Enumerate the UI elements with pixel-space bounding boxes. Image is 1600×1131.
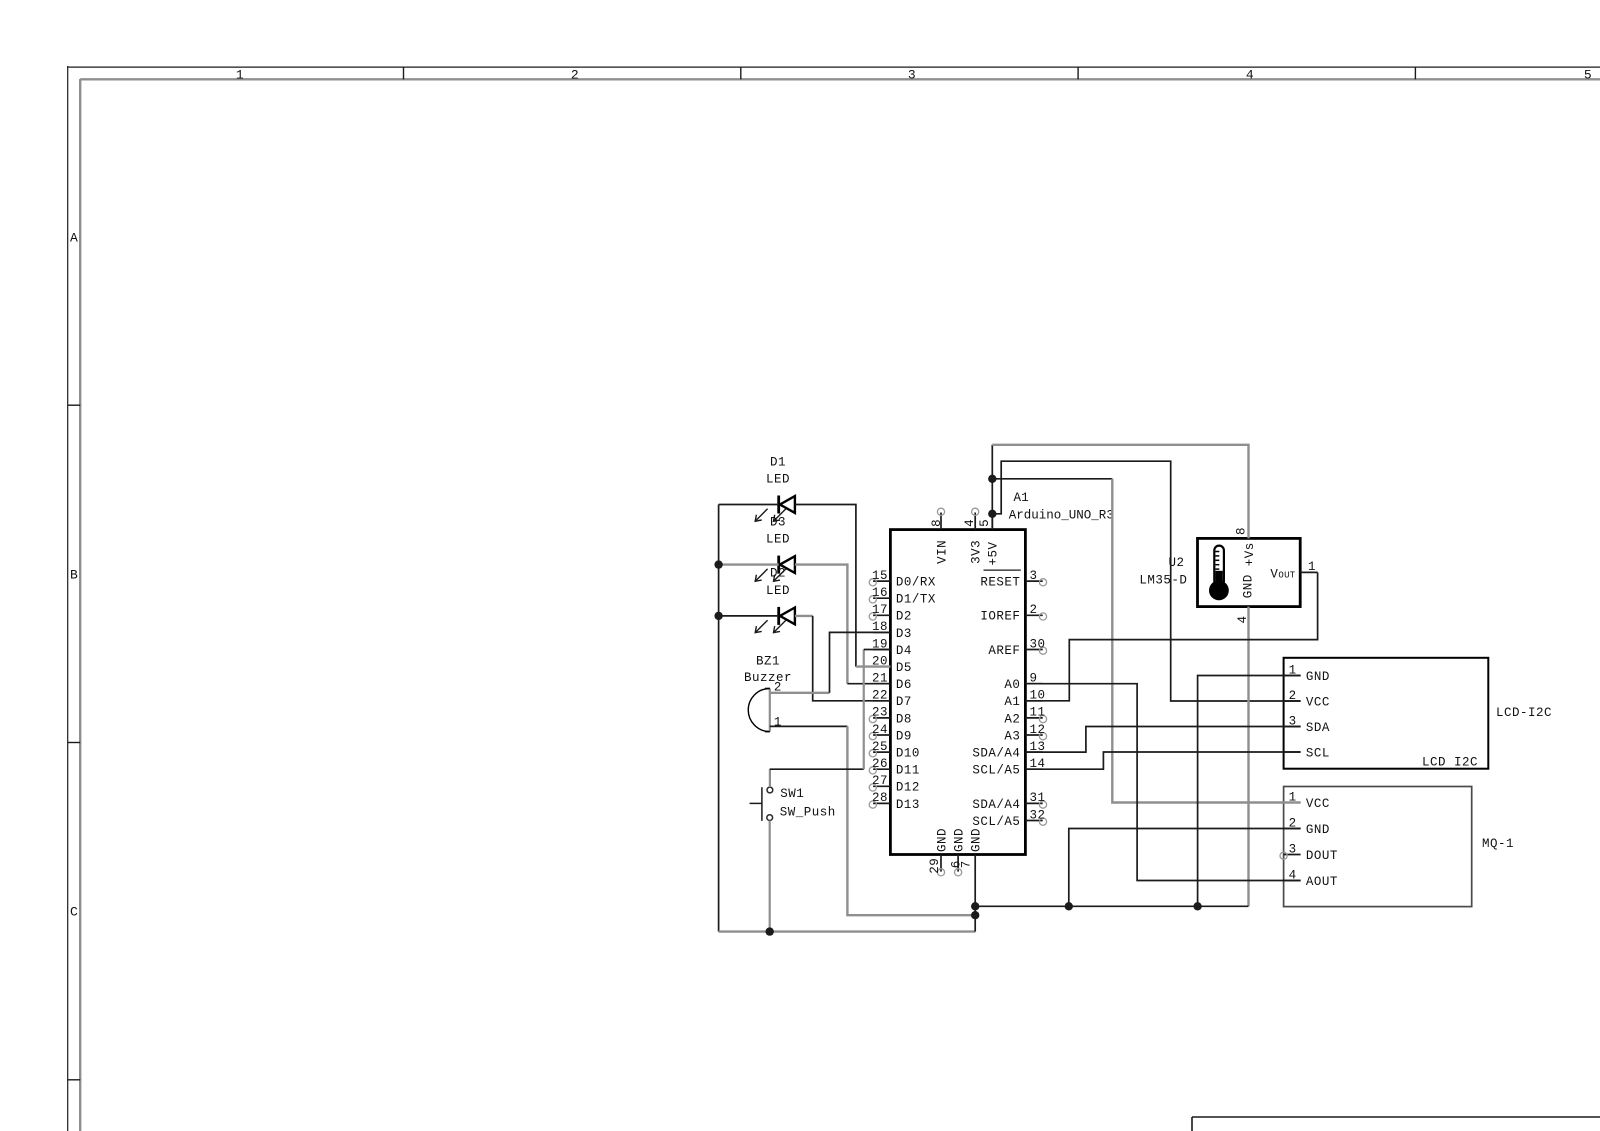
- svg-text:16: 16: [872, 586, 888, 600]
- svg-text:24: 24: [872, 723, 888, 737]
- svg-text:12: 12: [1030, 723, 1046, 737]
- svg-text:D12: D12: [896, 781, 920, 795]
- LCD pin 2 VCC: [1284, 689, 1330, 710]
- pin 11 A2: [1004, 706, 1046, 727]
- svg-text:VOUT: VOUT: [1270, 568, 1295, 582]
- pin 19 D4: [872, 637, 912, 658]
- svg-text:31: 31: [1030, 791, 1046, 805]
- svg-text:SW_Push: SW_Push: [780, 806, 836, 820]
- svg-text:D1/TX: D1/TX: [896, 593, 936, 607]
- pin 21 D6: [872, 672, 912, 693]
- pin 31 SDA/A4: [972, 791, 1046, 812]
- svg-text:D5: D5: [896, 661, 912, 675]
- svg-text:D0/RX: D0/RX: [896, 576, 936, 590]
- svg-text:7: 7: [960, 860, 974, 868]
- pin 16 D1/TX: [869, 586, 936, 607]
- svg-text:DOUT: DOUT: [1306, 849, 1338, 863]
- svg-text:D2: D2: [896, 610, 912, 624]
- wire +5V to LM35 +Vs: [992, 445, 1248, 539]
- svg-text:SCL: SCL: [1306, 746, 1330, 760]
- svg-text:A: A: [70, 230, 78, 245]
- wire D3 anode: [719, 563, 779, 565]
- svg-text:3V3: 3V3: [970, 540, 984, 564]
- svg-text:SDA/A4: SDA/A4: [972, 798, 1020, 812]
- LM35 pin 8 +Vs: [1235, 527, 1257, 566]
- svg-text:5: 5: [978, 519, 992, 527]
- switch SW1 SW_Push: [750, 787, 836, 821]
- svg-text:LCD I2C: LCD I2C: [1422, 756, 1478, 770]
- svg-text:A0: A0: [1004, 678, 1020, 692]
- svg-text:C: C: [70, 904, 78, 919]
- wire SDA/A4 to LCD SDA: [1025, 727, 1300, 753]
- svg-text:23: 23: [872, 706, 888, 720]
- wire GND rail right: [974, 855, 976, 932]
- svg-text:3: 3: [1289, 842, 1297, 856]
- svg-text:3: 3: [1030, 569, 1038, 583]
- wire LM35 GND drop: [1247, 607, 1249, 907]
- LM35 pin 1 VOUT: [1270, 560, 1317, 582]
- title block corner: [1191, 1117, 1193, 1131]
- MQ-1 pin 3 DOUT: [1280, 842, 1338, 863]
- sheet border outer: [67, 66, 69, 1131]
- pin 8 VIN: [930, 508, 949, 564]
- temp sensor U2 LM35-D body: [1198, 538, 1301, 606]
- svg-text:1: 1: [1308, 560, 1316, 574]
- wire D3 cathode to pin 21 D6: [795, 565, 848, 684]
- svg-text:MQ-1: MQ-1: [1482, 837, 1514, 851]
- MQ-1 pin 2 GND: [1284, 816, 1330, 837]
- svg-text:2: 2: [571, 67, 579, 82]
- svg-text:D6: D6: [896, 678, 912, 692]
- svg-text:32: 32: [1030, 808, 1046, 822]
- wire MQ-1 GND: [1069, 829, 1301, 907]
- svg-text:GND: GND: [935, 828, 949, 852]
- pin 29 GND: [928, 828, 950, 876]
- svg-text:2: 2: [1030, 603, 1038, 617]
- LM35 pin 4 GND: [1236, 574, 1255, 623]
- svg-text:VIN: VIN: [935, 540, 949, 564]
- pin 7 GND: [960, 828, 984, 868]
- pin 10 A1: [1004, 689, 1045, 710]
- Arduino U A1 body: [890, 530, 1025, 855]
- pin 28 D13: [869, 791, 920, 812]
- svg-text:28: 28: [872, 791, 888, 805]
- wire SW1 to pin 19 D4: [769, 769, 771, 787]
- wire +5V to MQ-1 VCC: [992, 478, 1112, 480]
- LED D3: [755, 515, 795, 581]
- svg-text:D4: D4: [896, 644, 912, 658]
- pin 20 D5: [872, 654, 912, 675]
- svg-text:5: 5: [1584, 67, 1592, 82]
- wire buzzer pin 1 to GND: [770, 725, 848, 727]
- svg-text:8: 8: [930, 519, 944, 527]
- svg-text:GND: GND: [1242, 574, 1256, 598]
- svg-text:VCC: VCC: [1306, 797, 1330, 811]
- svg-text:1: 1: [774, 715, 782, 729]
- LED D1: [755, 455, 795, 521]
- buzzer BZ1: [744, 654, 792, 731]
- pin 26 D11: [869, 757, 920, 778]
- pin 3 RESET: [980, 569, 1046, 590]
- svg-text:11: 11: [1030, 706, 1046, 720]
- svg-text:BZ1: BZ1: [756, 654, 780, 668]
- svg-text:15: 15: [872, 569, 888, 583]
- wire A0 to MQ-1 AOUT: [1025, 684, 1300, 881]
- svg-text:29: 29: [928, 858, 942, 874]
- pin 22 D7: [872, 689, 912, 710]
- svg-text:D7: D7: [896, 695, 912, 709]
- svg-text:IOREF: IOREF: [980, 610, 1020, 624]
- svg-text:27: 27: [872, 774, 888, 788]
- svg-text:A2: A2: [1004, 712, 1020, 726]
- svg-text:GND: GND: [1306, 823, 1330, 837]
- svg-text:SDA: SDA: [1306, 721, 1330, 735]
- pin 5 +5V: [978, 514, 1001, 566]
- pin 25 D10: [869, 740, 920, 761]
- svg-text:30: 30: [1030, 637, 1046, 651]
- svg-text:LED: LED: [766, 473, 790, 487]
- svg-text:D3: D3: [896, 627, 912, 641]
- pin 9 A0: [1004, 672, 1042, 693]
- svg-text:17: 17: [872, 603, 888, 617]
- wire D2 cathode to pin 22 D7: [795, 615, 813, 617]
- svg-text:+5V: +5V: [987, 541, 1001, 565]
- svg-text:GND: GND: [952, 828, 966, 852]
- LCD pin 3 SDA: [1284, 714, 1330, 735]
- svg-text:LCD-I2C: LCD-I2C: [1496, 706, 1552, 720]
- wire A1 to LM35 VOUT: [1025, 572, 1317, 700]
- pin 4 3V3: [963, 508, 984, 564]
- svg-text:4: 4: [963, 519, 977, 527]
- svg-text:AREF: AREF: [988, 644, 1020, 658]
- pin 12 A3: [1004, 723, 1046, 744]
- svg-text:AOUT: AOUT: [1306, 875, 1338, 889]
- svg-text:26: 26: [872, 757, 888, 771]
- pin 15 D0/RX: [869, 569, 936, 590]
- svg-text:3: 3: [908, 67, 916, 82]
- pin 24 D9: [869, 723, 912, 744]
- thermometer icon: [1209, 546, 1229, 601]
- wire +5V riser: [991, 445, 993, 530]
- pin 18 D3: [872, 620, 912, 641]
- svg-text:D1: D1: [770, 455, 786, 469]
- svg-text:LED: LED: [766, 584, 790, 598]
- pin 27 D12: [869, 774, 920, 795]
- pin 13 SDA/A4: [972, 740, 1045, 761]
- gas sensor module MQ-1 body: [1284, 787, 1472, 907]
- svg-text:LM35-D: LM35-D: [1139, 574, 1187, 588]
- wire SW1 to GND rail: [769, 821, 771, 932]
- wire SCL/A5 to LCD SCL: [1025, 752, 1300, 769]
- svg-text:B: B: [70, 567, 78, 582]
- svg-text:D9: D9: [896, 729, 912, 743]
- pin 6 GND: [950, 828, 967, 876]
- svg-text:25: 25: [872, 740, 888, 754]
- svg-text:SCL/A5: SCL/A5: [972, 764, 1020, 778]
- svg-text:SDA/A4: SDA/A4: [972, 747, 1020, 761]
- svg-text:1: 1: [236, 67, 244, 82]
- svg-text:D10: D10: [896, 747, 920, 761]
- wire D1 cathode to pin 20 D5: [795, 505, 856, 667]
- svg-text:GND: GND: [1306, 670, 1330, 684]
- wire LCD GND: [1198, 676, 1301, 907]
- wire +5V to LCD VCC: [992, 461, 1300, 701]
- wire left vertical GND branch: [718, 505, 720, 932]
- MQ-1 pin 4 AOUT: [1284, 868, 1338, 889]
- svg-text:SCL/A5: SCL/A5: [972, 815, 1020, 829]
- row ruler ticks: [68, 404, 81, 406]
- svg-text:A1: A1: [1004, 695, 1020, 709]
- svg-text:VCC: VCC: [1306, 695, 1330, 709]
- pin 32 SCL/A5: [972, 808, 1046, 829]
- svg-text:Arduino_UNO_R3: Arduino_UNO_R3: [1009, 508, 1114, 522]
- wire D1 anode rail: [719, 504, 779, 506]
- wire bottom GND rail: [719, 930, 976, 932]
- svg-text:D11: D11: [896, 764, 920, 778]
- pin 14 SCL/A5: [972, 757, 1045, 778]
- svg-text:D13: D13: [896, 798, 920, 812]
- MQ-1 pin 1 VCC: [1284, 790, 1330, 811]
- svg-text:8: 8: [1235, 527, 1249, 535]
- LCD pin 1 GND: [1284, 663, 1330, 684]
- LCD module LCD-I2C body: [1284, 658, 1489, 769]
- svg-text:A3: A3: [1004, 729, 1020, 743]
- svg-text:A1: A1: [1014, 491, 1029, 505]
- svg-text:LED: LED: [766, 533, 790, 547]
- pin 30 AREF: [988, 637, 1046, 658]
- svg-text:GND: GND: [970, 828, 984, 852]
- pin 23 D8: [869, 706, 912, 727]
- pin 17 D2: [869, 603, 912, 624]
- svg-text:4: 4: [1246, 67, 1254, 82]
- wire D2 anode: [719, 615, 779, 617]
- LED D2: [755, 567, 795, 633]
- svg-text:D2: D2: [770, 567, 786, 581]
- pin 2 IOREF: [980, 603, 1046, 624]
- LCD pin SCL: [1284, 746, 1330, 760]
- svg-text:Buzzer: Buzzer: [744, 671, 792, 685]
- svg-text:D3: D3: [770, 515, 786, 529]
- column ruler ticks: [403, 67, 405, 79]
- svg-text:SW1: SW1: [780, 787, 804, 801]
- svg-text:RESET: RESET: [980, 576, 1020, 590]
- wire buzzer pin 2 to pin 18 D3: [770, 692, 830, 694]
- sheet border inner: [79, 79, 81, 1131]
- svg-text:+Vs: +Vs: [1243, 542, 1257, 566]
- junction dots: [714, 560, 722, 568]
- svg-text:D8: D8: [896, 712, 912, 726]
